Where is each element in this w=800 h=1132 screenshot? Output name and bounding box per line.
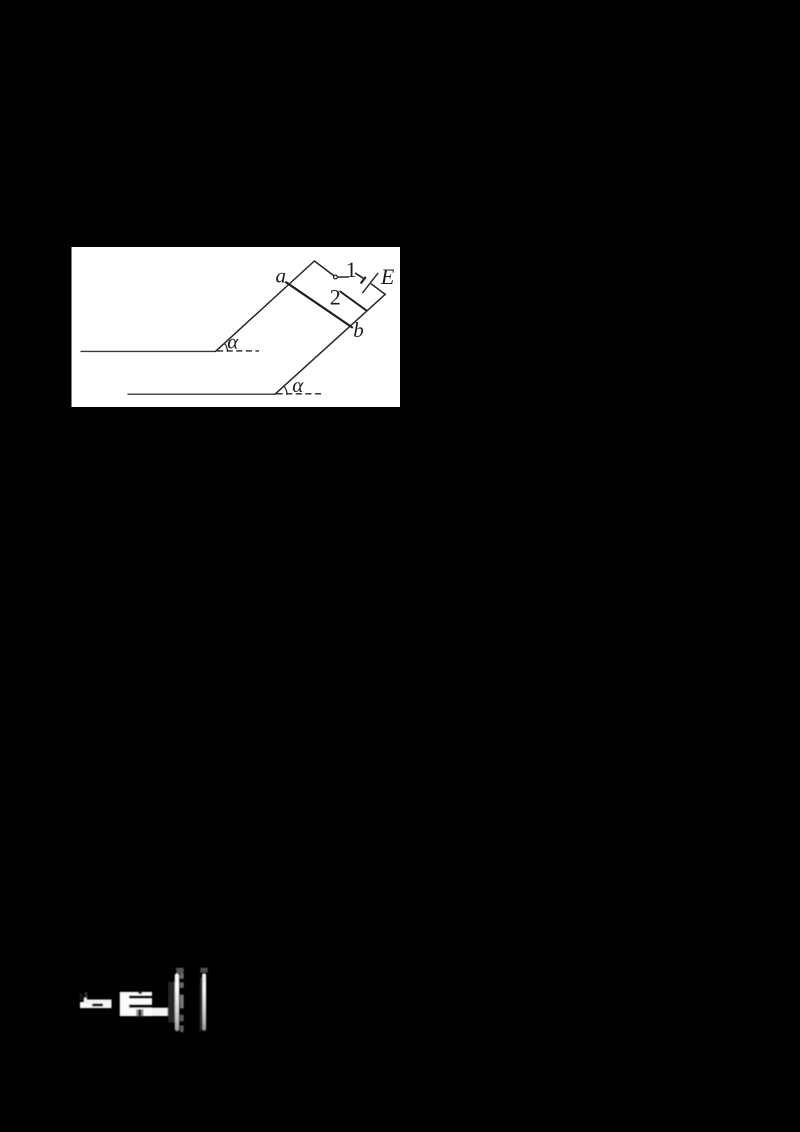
angle arc 2 xyxy=(284,386,287,394)
white figure panel xyxy=(72,247,401,407)
rod ab xyxy=(286,282,352,327)
dashed horizontal reference 1 xyxy=(217,350,259,352)
dashed horizontal reference 2 xyxy=(277,393,323,395)
mark C: bright vertical bar xyxy=(168,982,174,1023)
svg-text:E: E xyxy=(380,264,395,289)
mark A: white bracket xyxy=(80,1002,112,1008)
faint bottom-left artifacts xyxy=(80,968,208,1032)
rod 2 xyxy=(340,292,366,311)
wire: rail 1 incline xyxy=(216,261,315,351)
wire: rail1 top to switch contact xyxy=(314,261,333,276)
mark B: white E shape xyxy=(120,992,152,1016)
svg-text:α: α xyxy=(227,330,239,354)
switch blade xyxy=(356,273,365,279)
wire: short horizontal at switch xyxy=(338,276,349,278)
svg-text:a: a xyxy=(276,263,287,287)
switch contact circle xyxy=(334,275,338,279)
wire: battery to rail 2 top xyxy=(371,284,385,294)
svg-text:1: 1 xyxy=(346,257,357,282)
wire: lower ground line xyxy=(128,393,275,395)
svg-text:2: 2 xyxy=(330,285,341,310)
battery long plate xyxy=(363,273,378,292)
battery short plate xyxy=(361,278,365,283)
svg-text:α: α xyxy=(292,373,304,397)
svg-text:b: b xyxy=(353,318,364,342)
angle arc 1 xyxy=(224,343,227,351)
wire: upper ground line xyxy=(81,350,216,352)
mark D: bright vertical bar xyxy=(200,968,207,973)
wire: rail 2 incline xyxy=(275,294,385,394)
